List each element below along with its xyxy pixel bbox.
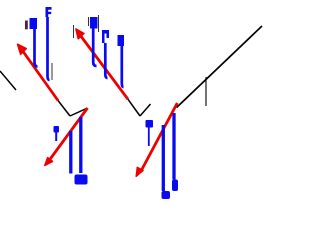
node M1: purple tick: [25, 21, 28, 30]
wire M1 bar2: [48, 17, 50, 80]
red arrow A4 head: [136, 167, 143, 176]
wire: black V left (up): [70, 108, 88, 116]
node M4 blobB: [172, 180, 178, 192]
wire M2 bar1: [93, 29, 96, 67]
wire: black V left (down): [58, 101, 70, 117]
wire M2 bar3: [122, 46, 124, 87]
wire M2 bar2: [105, 43, 107, 78]
red arrow A2 head: [76, 29, 84, 39]
red arrow A2 shaft: [79, 34, 128, 99]
node M3 mark: blue lobe and stem: [54, 126, 60, 133]
wire: black V middle (up): [140, 104, 151, 116]
node M1 lobe1: blue square: [30, 18, 38, 29]
wire: black vertical under long diagonal: [205, 77, 207, 106]
wire: black V middle (down): [128, 99, 140, 116]
wire: faint black stems near blue bars: [51, 63, 53, 80]
node M2 lobe3: blue small square: [118, 35, 125, 46]
node M2 lobe2: blue natural-sign shape: [102, 30, 109, 43]
wire M4 barB: [172, 113, 175, 180]
node M4 blobA: [162, 191, 171, 199]
red arrow A1 shaft: [21, 49, 58, 101]
wire M3 barA: [69, 131, 72, 174]
node M4 mark: blue lobe and stem: [146, 120, 154, 128]
red arrow A1 head: [18, 44, 27, 54]
wire: long black diagonal: [177, 26, 262, 108]
wire M3 barB: [79, 117, 82, 173]
node M1 lobe2: blue F shape: [46, 7, 52, 17]
red arrow A3 head: [45, 158, 53, 166]
node M2 lobe1: blue square: [90, 17, 98, 29]
red arrow A3 shaft: [48, 108, 88, 162]
wire M4 barA: [162, 125, 165, 191]
wire: left edge black segment: [0, 71, 16, 90]
red arrow A4 shaft: [141, 103, 178, 172]
node M3 blob: [75, 175, 88, 185]
wire M1 bar1: [35, 29, 38, 67]
